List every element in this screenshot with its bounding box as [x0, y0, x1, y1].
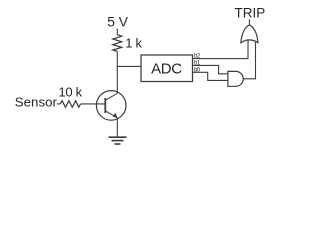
- resistor R2 10k: [60, 101, 80, 107]
- AND gate U2: [228, 71, 243, 86]
- wire AND output to OR gate input: [243, 42, 255, 79]
- wire b1 from ADC to AND input A: [193, 65, 228, 73]
- resistor R1 1k: [113, 35, 122, 52]
- transistor Q1 NPN: [96, 91, 126, 121]
- ADC U1 box: [141, 55, 193, 82]
- svg-text:10 k: 10 k: [59, 84, 83, 99]
- svg-text:TRIP: TRIP: [235, 6, 266, 21]
- svg-text:5 V: 5 V: [107, 15, 129, 30]
- svg-text:1 k: 1 k: [125, 35, 142, 50]
- ground: [109, 137, 127, 144]
- wire OR output to TRIP: [248, 19, 250, 25]
- wire b0 from ADC to AND input B: [193, 72, 228, 80]
- wire Q1 emitter to ground: [116, 118, 118, 137]
- wire b2 from ADC to OR gate input: [193, 41, 249, 59]
- svg-text:ADC: ADC: [151, 60, 182, 77]
- wire Sensor stub to R2: [57, 103, 60, 105]
- wire R1 to Q1 collector (main vertical): [116, 51, 118, 93]
- wire junction to ADC input: [117, 65, 141, 67]
- OR gate U3: [241, 25, 258, 43]
- svg-text:Sensor: Sensor: [15, 94, 58, 109]
- wire R2 to Q1 base: [81, 103, 106, 105]
- wire 5V terminal to resistor R1: [116, 29, 118, 35]
